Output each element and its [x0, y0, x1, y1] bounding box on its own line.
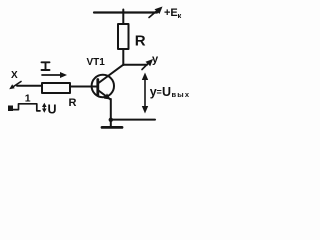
- wire emitter down: [110, 99, 112, 127]
- wire top supply rail: [94, 11, 157, 13]
- wire R to collector node: [122, 49, 124, 65]
- ground: [102, 126, 122, 129]
- wire collector node to output: [123, 64, 147, 66]
- svg-text:=: =: [157, 87, 162, 97]
- current arrow: [42, 74, 63, 76]
- label I current: [42, 62, 50, 70]
- wire base: [70, 86, 97, 88]
- emitter lead: [99, 91, 111, 100]
- wire bottom to arrow: [111, 119, 155, 121]
- svg-text:U: U: [48, 103, 57, 117]
- terminal arrow X input: [12, 82, 21, 88]
- resistor R (base): [42, 83, 70, 93]
- pulse amplitude arrow U: [43, 105, 45, 112]
- svg-text:к: к: [178, 11, 182, 20]
- svg-text:1: 1: [25, 93, 31, 105]
- svg-text:X: X: [11, 70, 18, 81]
- transistor base bar: [96, 80, 99, 96]
- junction node: [109, 118, 113, 122]
- resistor R (collector load): [118, 24, 129, 49]
- svg-text:R: R: [69, 97, 77, 109]
- terminal arrow y output: [142, 62, 150, 70]
- svg-text:U: U: [162, 85, 171, 99]
- wire input: [17, 85, 42, 87]
- terminal arrow +Ek: [149, 9, 159, 18]
- collector lead: [99, 65, 124, 83]
- transistor Q1 circle: [92, 75, 114, 97]
- wire stub from rail to R: [122, 10, 124, 25]
- pulse start dot: [8, 106, 13, 112]
- svg-text:+E: +E: [164, 7, 178, 19]
- svg-text:y: y: [152, 54, 159, 66]
- svg-text:VT1: VT1: [87, 57, 106, 68]
- svg-text:R: R: [135, 33, 146, 50]
- pulse waveform: [13, 104, 40, 111]
- svg-text:вых: вых: [172, 90, 191, 99]
- measurement double arrow Uout: [144, 76, 146, 110]
